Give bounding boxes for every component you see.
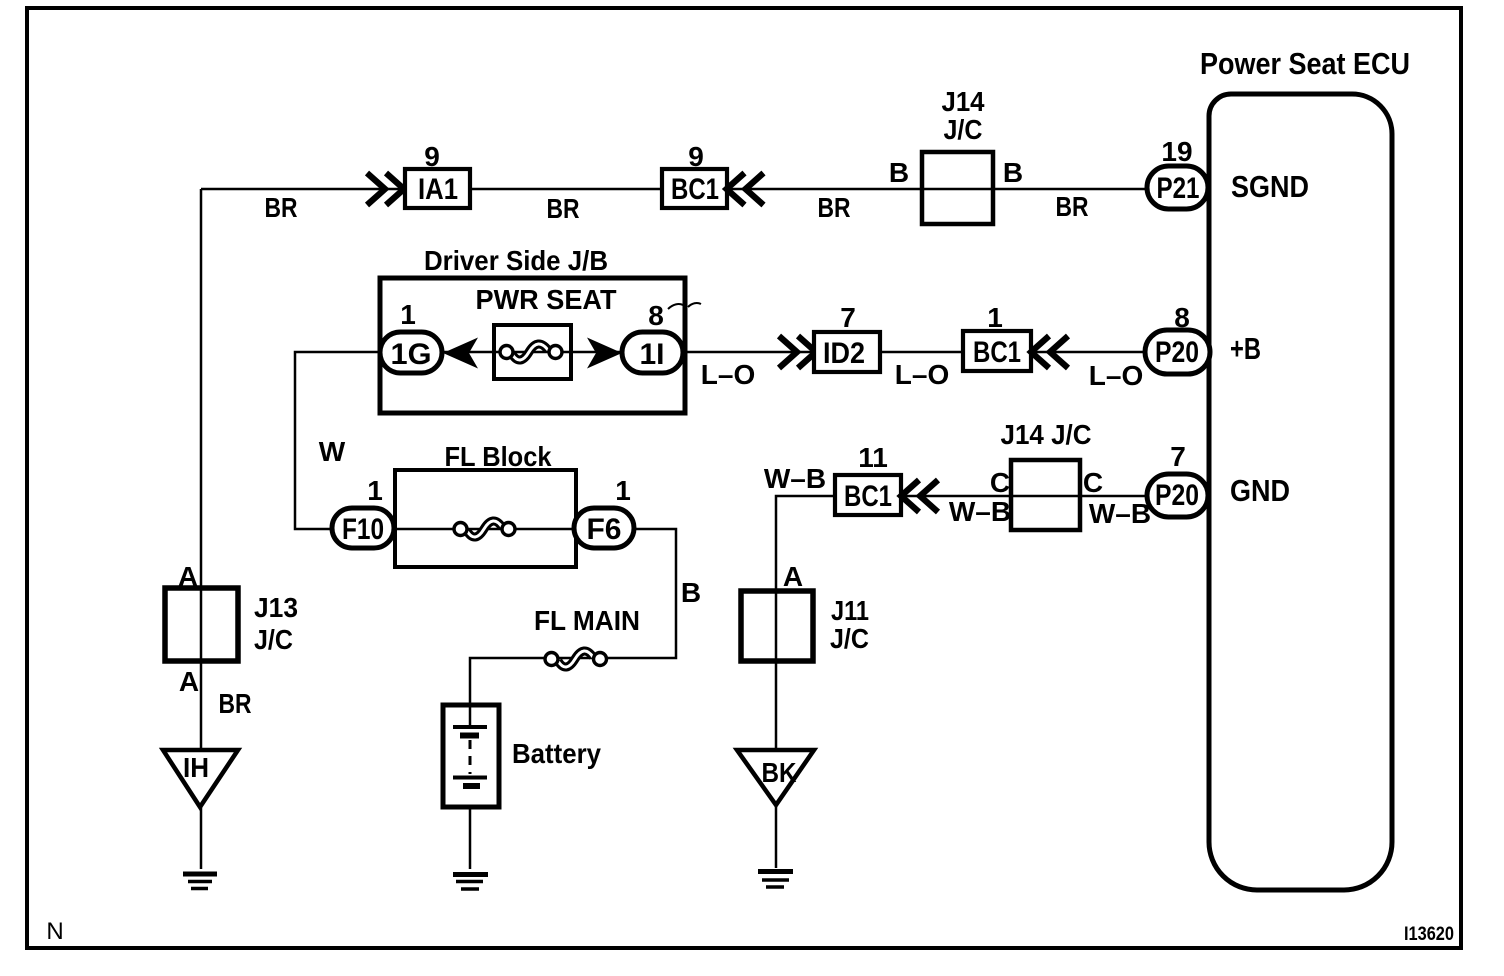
svg-text:BC1: BC1 — [973, 336, 1021, 369]
svg-text:8: 8 — [648, 300, 664, 331]
svg-text:1I: 1I — [639, 338, 664, 371]
svg-text:J14: J14 — [942, 86, 985, 117]
svg-text:7: 7 — [1170, 441, 1186, 472]
svg-text:Driver Side J/B: Driver Side J/B — [424, 245, 608, 276]
svg-text:W: W — [319, 436, 346, 467]
svg-text:C: C — [1083, 467, 1103, 498]
svg-text:P20: P20 — [1155, 479, 1199, 512]
svg-text:L–O: L–O — [895, 359, 949, 390]
svg-text:W–B: W–B — [764, 463, 826, 494]
svg-text:FL MAIN: FL MAIN — [534, 605, 640, 636]
svg-text:1: 1 — [367, 475, 383, 506]
svg-text:FL Block: FL Block — [445, 441, 552, 472]
svg-text:P20: P20 — [1155, 336, 1199, 369]
svg-text:J/C: J/C — [830, 623, 869, 654]
svg-text:IA1: IA1 — [418, 173, 458, 206]
svg-text:B: B — [889, 157, 909, 188]
svg-text:BC1: BC1 — [844, 480, 892, 513]
svg-text:B: B — [681, 577, 701, 608]
svg-text:11: 11 — [858, 442, 888, 473]
svg-text:1: 1 — [615, 475, 631, 506]
svg-text:B: B — [1003, 157, 1023, 188]
svg-text:BK: BK — [762, 757, 797, 788]
svg-text:F6: F6 — [586, 513, 621, 546]
svg-text:BR: BR — [547, 193, 580, 224]
svg-text:19: 19 — [1161, 136, 1192, 167]
svg-text:IH: IH — [183, 752, 209, 783]
svg-text:BR: BR — [1056, 191, 1089, 222]
svg-text:BR: BR — [219, 688, 252, 719]
svg-text:BR: BR — [265, 192, 298, 223]
svg-text:GND: GND — [1230, 473, 1290, 508]
svg-text:P21: P21 — [1157, 172, 1200, 205]
svg-text:C: C — [990, 467, 1010, 498]
svg-text:W–B: W–B — [1089, 498, 1151, 529]
svg-text:J11: J11 — [831, 595, 869, 626]
svg-text:BC1: BC1 — [671, 173, 719, 206]
svg-text:Battery: Battery — [512, 738, 601, 769]
svg-text:ID2: ID2 — [823, 337, 865, 370]
svg-text:J/C: J/C — [254, 624, 293, 655]
svg-text:F10: F10 — [342, 513, 384, 546]
svg-text:1: 1 — [400, 299, 416, 330]
svg-text:+B: +B — [1230, 331, 1261, 366]
svg-text:BR: BR — [818, 192, 851, 223]
svg-text:9: 9 — [688, 141, 704, 172]
svg-text:Power Seat ECU: Power Seat ECU — [1200, 46, 1410, 81]
svg-text:PWR SEAT: PWR SEAT — [476, 284, 617, 315]
svg-text:W–B: W–B — [949, 496, 1011, 527]
svg-text:N: N — [46, 918, 63, 945]
svg-text:J13: J13 — [254, 592, 298, 623]
svg-text:9: 9 — [424, 141, 440, 172]
svg-text:1: 1 — [987, 302, 1003, 333]
svg-text:1G: 1G — [391, 338, 432, 371]
svg-text:A: A — [783, 561, 803, 592]
svg-text:J/C: J/C — [944, 114, 983, 145]
svg-text:A: A — [179, 666, 199, 697]
svg-text:L–O: L–O — [701, 359, 755, 390]
svg-text:SGND: SGND — [1231, 169, 1309, 204]
svg-text:I13620: I13620 — [1404, 924, 1454, 945]
svg-text:J14 J/C: J14 J/C — [1001, 419, 1092, 450]
svg-text:L–O: L–O — [1089, 360, 1143, 391]
svg-text:7: 7 — [840, 302, 856, 333]
